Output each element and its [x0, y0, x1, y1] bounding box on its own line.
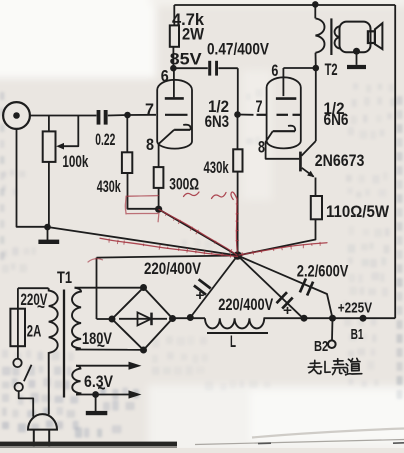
red jag at bridge corner — [88, 259, 103, 262]
svg-text:B2: B2 — [314, 338, 328, 355]
6N6 grid pin 7 — [238, 114, 254, 116]
6N6 plate pin 6 — [282, 68, 284, 96]
node center B+ star — [233, 251, 242, 260]
T1 winding 6.3V — [76, 365, 129, 367]
AC plug — [28, 414, 57, 430]
wire mid horizontal to node — [97, 256, 238, 258]
input jack J1 — [3, 102, 30, 129]
svg-text:6: 6 — [271, 61, 278, 80]
svg-text:B1: B1 — [351, 326, 364, 343]
ground 6.3V — [92, 391, 99, 398]
svg-text:6N3: 6N3 — [205, 112, 230, 131]
svg-text:2N6673: 2N6673 — [315, 151, 365, 170]
svg-text:85V: 85V — [170, 49, 203, 68]
wire bridge+ vertical — [96, 258, 98, 319]
svg-text:+: + — [196, 287, 205, 303]
svg-text:~: ~ — [97, 336, 105, 355]
svg-text:+225V: +225V — [338, 299, 372, 316]
ground input — [44, 224, 51, 231]
red hatch ticks — [108, 239, 110, 243]
svg-text:430k: 430k — [204, 158, 230, 177]
svg-text:430k: 430k — [97, 177, 121, 196]
6N3 plate pin 6 — [173, 68, 175, 97]
resistor R4 430k (6N6 grid) — [237, 115, 239, 150]
red stroke node to 110 ohm branch — [239, 243, 327, 255]
capacitor C1 0.22 — [97, 110, 101, 125]
node 85V junction — [170, 65, 177, 72]
node cathode R2/R3 junction — [155, 206, 162, 213]
transistor Q1 2N6673 — [299, 152, 302, 172]
svg-text:L: L — [230, 332, 236, 351]
red stroke node to cathode junction — [159, 210, 237, 256]
potentiometer RP 100k — [48, 116, 50, 132]
speaker — [340, 22, 371, 53]
page edge line — [252, 429, 404, 438]
bridge rectifier — [112, 288, 173, 351]
resistor R2 430k — [126, 115, 128, 152]
wire input ground to center node — [48, 227, 238, 256]
wire jack sleeve down — [17, 129, 48, 227]
node grid junction 6N3 — [124, 112, 131, 119]
op tube U2 1/2 6N6 envelope — [267, 77, 301, 148]
T2 core — [330, 18, 332, 55]
6N3 cathode pin 8 — [174, 129, 190, 131]
diode D1 — [119, 318, 167, 320]
svg-text:+: + — [283, 302, 292, 318]
svg-text:2W: 2W — [182, 25, 205, 44]
terminal B1 — [360, 315, 367, 322]
resistor R1 4.7k 2W — [173, 5, 175, 25]
wire junction to center node — [159, 209, 238, 255]
svg-text:100k: 100k — [62, 152, 88, 171]
svg-text:2A: 2A — [27, 321, 42, 340]
svg-text:7: 7 — [256, 97, 263, 116]
wire bottom +225V rail — [173, 317, 206, 319]
red box around cathode corner — [125, 196, 159, 222]
svg-text:110Ω/5W: 110Ω/5W — [326, 202, 390, 221]
red squiggle under 300 ohm — [184, 192, 200, 197]
T1 primary winding 220V — [18, 287, 49, 289]
6N3 grid pin 7 — [128, 114, 157, 116]
6N6 cathode pin 8 — [273, 130, 295, 132]
wire jack to C1 — [30, 115, 96, 117]
svg-text:~: ~ — [37, 297, 45, 316]
svg-text:0.22: 0.22 — [95, 130, 115, 149]
fuse 2A — [17, 288, 19, 358]
wire C2 to 6N3 grid2 — [237, 68, 239, 114]
red squiggle under 430k — [212, 193, 227, 199]
svg-text:8: 8 — [258, 137, 265, 156]
T1 secondary 180V — [72, 288, 81, 350]
wire T2 to 6N6 plate — [283, 67, 315, 69]
red stroke along ground diagonal — [100, 238, 238, 256]
ground speaker — [353, 48, 360, 55]
red stroke node up along 430k lead — [231, 192, 237, 252]
op tube U1 1/2 6N3 envelope — [157, 80, 192, 149]
svg-text:8: 8 — [146, 135, 154, 154]
transformer T2 primary — [312, 1, 319, 8]
terminal B2 — [331, 318, 334, 340]
capacitor C3 220/400V (first) — [190, 256, 237, 318]
wire top B+ rail — [174, 4, 395, 6]
svg-text:2.2/600V: 2.2/600V — [297, 262, 349, 281]
T1 core — [63, 290, 65, 398]
wire right edge — [394, 5, 396, 318]
inductor L — [205, 318, 264, 328]
svg-text:T1: T1 — [57, 268, 72, 287]
capacitor C5 2.2/600V — [238, 256, 333, 319]
capacitor C4 220/400V (second) — [238, 256, 304, 320]
label: to L channel (CJK drawn) — [308, 358, 362, 375]
svg-text:220/400V: 220/400V — [218, 295, 273, 314]
svg-text:6N6: 6N6 — [324, 110, 349, 129]
svg-text:T2: T2 — [325, 60, 338, 79]
page border bottom-left — [0, 442, 177, 447]
svg-text:220/400V: 220/400V — [144, 259, 202, 278]
svg-text:300Ω: 300Ω — [169, 174, 199, 193]
svg-text:0.47/400V: 0.47/400V — [207, 40, 270, 59]
svg-text:7: 7 — [145, 100, 154, 119]
switch S1 — [13, 359, 21, 367]
resistor R3 300 ohm — [154, 167, 164, 188]
capacitor C2 0.47/400V — [173, 67, 207, 69]
svg-text:6: 6 — [161, 67, 169, 86]
resistor R5 110/5W — [311, 196, 322, 219]
